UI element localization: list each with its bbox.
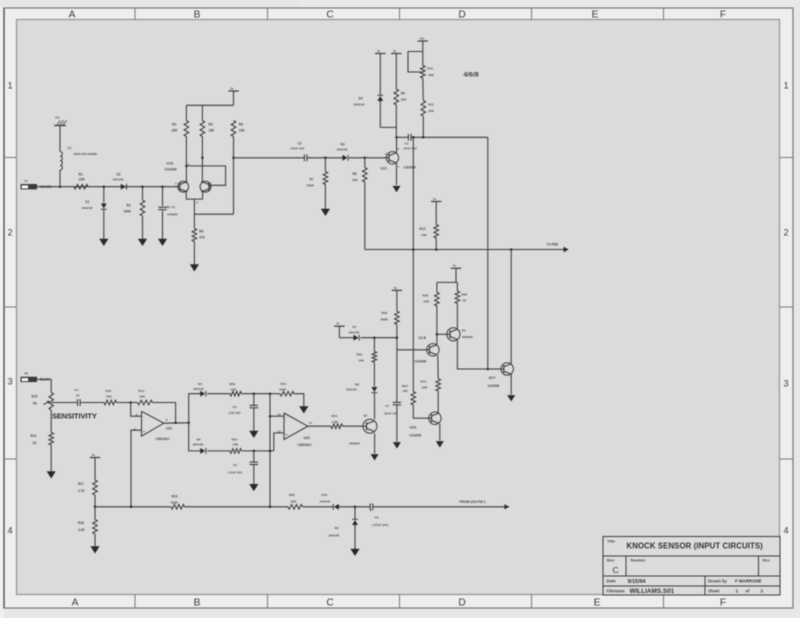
svg-text:33R: 33R <box>422 386 428 390</box>
svg-text:4: 4 <box>7 526 12 536</box>
diode D2 <box>121 184 126 190</box>
svg-text:1N4148: 1N4148 <box>193 443 204 447</box>
transistor Q1 2N3906 <box>447 328 460 341</box>
resistor R61 <box>411 392 416 406</box>
svg-text:1N4148: 1N4148 <box>193 387 204 391</box>
svg-text:12v: 12v <box>55 116 60 120</box>
node x270 bottom <box>269 506 272 509</box>
power bar R13 <box>431 201 441 203</box>
svg-text:C9: C9 <box>375 516 379 520</box>
svg-text:R23: R23 <box>232 437 238 441</box>
resistor R24 <box>331 424 343 429</box>
resistor R21 <box>280 391 294 396</box>
svg-text:C: C <box>326 598 333 609</box>
svg-text:50K: 50K <box>140 394 146 398</box>
svg-text:1.8K: 1.8K <box>332 420 339 424</box>
wire C9 to end <box>373 506 509 508</box>
power bar D7 <box>334 325 344 327</box>
wire branch down <box>189 423 201 451</box>
wire D10 to C9 <box>339 506 370 508</box>
wire minus jog <box>131 403 142 417</box>
wire R16 to node <box>117 402 138 404</box>
op-amp U2C LM324AJ <box>142 411 164 436</box>
svg-text:R17: R17 <box>78 482 84 486</box>
svg-text:SENSITIVITY: SENSITIVITY <box>52 412 97 421</box>
power bar D4 <box>375 53 385 55</box>
svg-text:10: 10 <box>133 428 136 432</box>
resistor R16 <box>104 400 117 405</box>
svg-text:KNOCK SENSOR (INPUT CIRCUITS): KNOCK SENSOR (INPUT CIRCUITS) <box>627 542 764 551</box>
svg-text:R19: R19 <box>172 495 178 499</box>
transistor Q2 2N3904 <box>363 419 377 433</box>
svg-text:R21: R21 <box>281 382 287 386</box>
transistor U1B CA3096 <box>427 344 439 356</box>
wire R56 down <box>396 324 398 349</box>
capacitor C1 <box>162 187 164 207</box>
svg-text:R11: R11 <box>428 103 434 107</box>
svg-text:1N4148: 1N4148 <box>329 534 340 538</box>
title block column lines <box>625 556 627 576</box>
resistor R65 <box>288 505 303 510</box>
svg-text:R1V: R1V <box>421 379 428 383</box>
ground R21 <box>299 406 308 413</box>
svg-text:U2C: U2C <box>166 427 173 431</box>
wire vertical x413 <box>412 137 414 249</box>
svg-text:D8: D8 <box>355 382 359 386</box>
resistor R10 <box>421 66 426 79</box>
svg-text:B: B <box>194 598 201 609</box>
right band dividers <box>780 157 794 159</box>
svg-text:BL C1: BL C1 <box>167 205 176 209</box>
svg-text:2N3906: 2N3906 <box>462 335 473 339</box>
node output U1A <box>201 157 204 160</box>
svg-text:Sheet: Sheet <box>708 588 720 593</box>
svg-text:14: 14 <box>309 421 312 425</box>
svg-text:4700PF: 4700PF <box>167 213 178 217</box>
svg-text:22R: 22R <box>424 300 430 304</box>
svg-text:180: 180 <box>403 389 408 393</box>
svg-text:R8: R8 <box>353 172 357 176</box>
svg-text:1K: 1K <box>33 441 38 445</box>
svg-text:D9: D9 <box>335 526 339 530</box>
wire plus input U2D <box>274 433 284 451</box>
wire U1B base <box>397 349 427 351</box>
wire to R10 <box>422 41 424 66</box>
svg-text:U1/3: U1/3 <box>410 425 417 429</box>
svg-text:R24: R24 <box>332 414 338 418</box>
resistor R7 <box>324 158 326 172</box>
capacitor C4 <box>77 399 79 406</box>
svg-text:2: 2 <box>783 228 788 238</box>
svg-text:.47UF 16V: .47UF 16V <box>403 147 417 151</box>
resistor R4 <box>200 121 205 137</box>
svg-text:of: of <box>746 588 751 593</box>
node C5 <box>253 392 256 395</box>
svg-text:R10: R10 <box>427 67 433 71</box>
wire R5 to output <box>233 137 235 215</box>
wire middle bus <box>365 249 568 251</box>
node L1 tap <box>59 185 62 188</box>
svg-text:560R: 560R <box>381 317 389 321</box>
power bar R56 <box>392 289 402 291</box>
diode D10 <box>334 504 339 510</box>
power bar R9 <box>391 53 401 55</box>
wire branch up <box>189 394 201 423</box>
svg-text:12v: 12v <box>420 36 425 40</box>
node plus drop <box>130 506 133 509</box>
wire U1B collector <box>436 343 438 346</box>
wire Q1 collector down <box>457 341 487 370</box>
svg-text:F: F <box>720 598 726 609</box>
svg-text:D10: D10 <box>322 493 328 497</box>
svg-text:5994-105-OHMS: 5994-105-OHMS <box>74 152 97 156</box>
connector P2 <box>21 377 38 382</box>
resistor R19 <box>171 505 185 510</box>
svg-text:560R: 560R <box>307 184 315 188</box>
wire emitter to R6 <box>194 213 233 215</box>
resistor R2 <box>142 187 144 200</box>
diode D6 <box>200 448 205 454</box>
svg-text:R56: R56 <box>382 311 388 315</box>
wire U2C output <box>164 422 189 424</box>
svg-text:U1A: U1A <box>167 162 174 166</box>
svg-text:F: F <box>720 9 726 20</box>
wire minus input U2D <box>270 415 284 417</box>
wire R20 to U2D <box>242 393 271 395</box>
capacitor C7 <box>396 350 398 402</box>
wire main input <box>37 186 178 188</box>
resistor R9 <box>395 54 397 90</box>
resistor R1 <box>74 184 88 189</box>
svg-text:5v: 5v <box>377 49 381 53</box>
capacitor C2 <box>303 154 305 161</box>
wire R61 to U1/3 base <box>412 405 414 418</box>
svg-text:C: C <box>613 565 619 575</box>
svg-text:U1 B: U1 B <box>419 336 427 340</box>
svg-text:3.3K: 3.3K <box>78 528 85 532</box>
ground C7 <box>393 442 401 448</box>
wire U2D output <box>308 425 331 427</box>
op-amp U2D LM324AJ <box>284 413 308 440</box>
svg-text:5v: 5v <box>336 322 340 326</box>
svg-text:13: 13 <box>278 412 281 416</box>
svg-text:+: + <box>286 433 288 437</box>
node bus x413 <box>412 248 415 251</box>
svg-text:R6: R6 <box>199 230 203 234</box>
wire mid vertical x270 <box>269 394 271 507</box>
svg-text:P1: P1 <box>25 179 29 183</box>
svg-text:R13: R13 <box>420 227 426 231</box>
svg-text:30K: 30K <box>401 98 407 102</box>
wire plus input drop <box>131 430 142 507</box>
svg-text:D4: D4 <box>359 97 363 101</box>
resistor R55 <box>373 338 375 352</box>
capacitor C6 <box>253 451 255 462</box>
capacitor C9 <box>369 503 371 510</box>
node R17/R18 <box>94 506 97 509</box>
diode D1 <box>103 187 105 203</box>
svg-text:Drawn by: Drawn by <box>708 579 728 584</box>
svg-text:Date: Date <box>607 579 617 584</box>
resistor R3 <box>184 121 189 137</box>
svg-text:R9: R9 <box>401 91 405 95</box>
wire R24 to Q2 <box>343 425 363 427</box>
node D9 <box>354 506 357 509</box>
wire R23 to vertical <box>242 450 274 452</box>
node vertical/D6 wire <box>269 450 272 453</box>
node U1A left collector <box>185 165 188 168</box>
power +12 rail <box>228 90 238 92</box>
svg-text:470: 470 <box>199 236 205 240</box>
wire top rail <box>185 105 187 120</box>
svg-text:22R: 22R <box>172 129 179 133</box>
ground C1 <box>158 239 167 246</box>
resistor R13 <box>435 202 437 225</box>
svg-text:U2D: U2D <box>304 436 311 440</box>
wire R19 to R65 <box>185 506 289 508</box>
svg-text:+: + <box>143 430 145 434</box>
svg-text:C2: C2 <box>298 141 302 145</box>
svg-text:D6: D6 <box>197 437 201 441</box>
svg-text:D: D <box>458 9 465 20</box>
resistor R18 <box>94 507 96 520</box>
svg-text:R18: R18 <box>78 521 84 525</box>
svg-text:CA3096: CA3096 <box>410 433 422 437</box>
title block outline <box>603 537 780 596</box>
wire R65 to D10 <box>303 506 334 508</box>
resistor R58 feedback <box>138 400 153 405</box>
svg-text:A: A <box>69 9 76 20</box>
svg-text:WILLIAMS.S01: WILLIAMS.S01 <box>630 588 675 595</box>
wire Q2 emitter <box>374 433 376 453</box>
ground Q2 <box>371 454 379 460</box>
svg-text:4: 4 <box>783 526 788 536</box>
svg-text:R4: R4 <box>209 122 213 126</box>
svg-text:5v: 5v <box>453 264 457 268</box>
wire C3 to corner <box>411 136 487 138</box>
ground R6 <box>190 264 199 271</box>
resistor R5 <box>231 121 236 137</box>
svg-text:10E: 10E <box>209 129 215 133</box>
svg-text:12: 12 <box>278 429 281 433</box>
svg-text:U1C: U1C <box>381 166 388 170</box>
node R21 <box>269 392 272 395</box>
svg-text:R14: R14 <box>31 434 37 438</box>
wire U1A collectors <box>185 137 187 182</box>
svg-text:R2: R2 <box>127 203 131 207</box>
resistor R26 <box>436 282 438 292</box>
svg-text:.1UF 50V: .1UF 50V <box>228 411 241 415</box>
svg-text:Number: Number <box>631 558 647 563</box>
arrow FROM U2A PIN 1 <box>504 504 509 509</box>
svg-text:LM324AJ: LM324AJ <box>156 437 170 441</box>
ground R18 <box>90 546 99 553</box>
ground D1 <box>99 239 108 246</box>
svg-text:CA3096: CA3096 <box>165 168 177 172</box>
bottom band dividers <box>134 595 136 609</box>
wire Q1 base <box>437 333 447 335</box>
svg-text:R16: R16 <box>106 389 112 393</box>
wire U1A feedback loop <box>186 166 225 185</box>
wire D6 to R23 <box>207 450 230 452</box>
node minus input <box>129 401 132 404</box>
svg-text:1N4148: 1N4148 <box>113 178 124 182</box>
node bus U5F <box>510 248 513 251</box>
node R7 <box>324 157 327 160</box>
wire to U1C base <box>349 157 386 159</box>
transistor U5F CA3096 <box>501 363 513 375</box>
resistor R27 <box>436 379 441 391</box>
diode D8 <box>373 362 375 386</box>
power bar R17 <box>90 457 100 459</box>
svg-text:3: 3 <box>7 377 12 387</box>
svg-text:E: E <box>592 9 599 20</box>
node bus R13 <box>435 248 438 251</box>
resistor R17 <box>94 458 96 481</box>
node diode branch <box>187 422 190 425</box>
svg-text:R14: R14 <box>139 389 145 393</box>
svg-text:1N4148: 1N4148 <box>354 102 365 106</box>
wire R26 to U1B <box>436 306 438 344</box>
svg-text:2: 2 <box>761 588 764 593</box>
svg-text:5K: 5K <box>33 402 38 406</box>
wire U1B emitter to R27 <box>437 355 439 378</box>
svg-text:Rev: Rev <box>763 558 771 563</box>
svg-text:5v: 5v <box>230 86 234 90</box>
svg-text:Q2: Q2 <box>364 413 368 417</box>
resistor R14 <box>49 433 54 446</box>
ground C6 <box>249 484 258 491</box>
svg-text:P2: P2 <box>25 372 29 376</box>
wire U5F emitter <box>510 374 512 394</box>
svg-text:.01: .01 <box>75 393 80 397</box>
node R8 <box>364 157 367 160</box>
svg-text:R55: R55 <box>357 353 363 357</box>
capacitor C3 <box>407 134 409 141</box>
ground U1/3 <box>436 441 444 447</box>
capacitor C5 <box>253 394 255 405</box>
svg-text:1: 1 <box>783 81 788 91</box>
wire D4 to R9 <box>380 126 396 128</box>
svg-text:D1: D1 <box>86 200 90 204</box>
svg-text:1N4148: 1N4148 <box>337 148 348 152</box>
node minus U2D <box>269 415 272 418</box>
diode D7 <box>338 326 340 338</box>
wire R8 down to bus <box>364 182 366 250</box>
wire power tee <box>455 268 457 282</box>
resistor R11 <box>422 78 425 101</box>
svg-text:R15: R15 <box>32 395 38 399</box>
svg-text:.47UF 16V: .47UF 16V <box>290 147 306 151</box>
svg-text:R66: R66 <box>461 292 467 296</box>
potentiometer R15 <box>49 393 54 411</box>
svg-text:D7: D7 <box>353 325 357 329</box>
title block row lines <box>603 555 780 557</box>
svg-text:5v: 5v <box>394 286 398 290</box>
wire R14 bottom <box>50 410 52 433</box>
wire D5 to R20 <box>207 393 230 395</box>
ground R7 <box>321 209 330 216</box>
svg-text:FROM U2A PIN 1: FROM U2A PIN 1 <box>460 500 486 504</box>
svg-text:100K: 100K <box>279 387 287 391</box>
svg-text:D1: D1 <box>462 328 466 332</box>
svg-text:Title: Title <box>607 539 616 544</box>
svg-text:9/15/94: 9/15/94 <box>628 579 646 585</box>
svg-text:C5: C5 <box>233 405 237 409</box>
svg-text:D3: D3 <box>341 142 345 146</box>
wire P2 to R15 <box>37 379 51 392</box>
node R55 top <box>373 336 376 339</box>
svg-text:C: C <box>326 9 333 20</box>
node feedback tap <box>174 422 177 425</box>
node D7 wire <box>396 336 399 339</box>
ground D9 <box>350 549 359 556</box>
wire bottom bus <box>95 506 171 508</box>
node C6 <box>253 450 256 453</box>
svg-text:A: A <box>72 598 79 609</box>
transistor U1A right <box>200 181 211 192</box>
svg-text:R5: R5 <box>239 122 243 126</box>
wire R27 to U1/3 <box>437 391 439 413</box>
svg-text:C6: C6 <box>233 463 237 467</box>
svg-text:5v: 5v <box>393 49 397 53</box>
outer border left edge emphasis <box>3 8 5 608</box>
svg-text:1: 1 <box>736 588 739 593</box>
svg-text:(.07UF 16V): (.07UF 16V) <box>372 523 388 527</box>
svg-text:C3: C3 <box>405 142 409 146</box>
svg-text:C4: C4 <box>74 388 78 392</box>
transistor U1A left <box>178 181 189 192</box>
ground C5 <box>249 431 258 438</box>
wire collector bus y137 <box>397 136 409 138</box>
svg-text:22R: 22R <box>291 500 297 504</box>
svg-text:R65: R65 <box>289 493 295 497</box>
diode D4 <box>379 54 381 96</box>
svg-text:10K: 10K <box>239 129 246 133</box>
resistor R23 <box>230 449 242 454</box>
ground U1C emitter <box>393 186 401 192</box>
svg-text:100K: 100K <box>124 209 132 213</box>
ground R2 <box>138 239 147 246</box>
svg-text:Size: Size <box>607 558 616 563</box>
ground R14 <box>47 471 56 478</box>
left band dividers <box>4 157 17 159</box>
resistor R6 <box>192 229 197 242</box>
svg-text:R1: R1 <box>79 173 83 177</box>
ground U5F <box>507 395 515 401</box>
node D1 <box>103 185 106 188</box>
svg-text:CA3096: CA3096 <box>488 384 500 388</box>
svg-text:10K: 10K <box>421 233 427 237</box>
wire feedback to output <box>153 403 176 423</box>
svg-text:30K: 30K <box>428 73 434 77</box>
svg-text:D5: D5 <box>198 382 202 386</box>
wire wiper out <box>51 402 77 404</box>
power +5 right <box>451 267 461 269</box>
svg-text:1N4148: 1N4148 <box>349 330 360 334</box>
svg-text:22K: 22K <box>106 394 112 398</box>
node bus vertical <box>412 136 415 139</box>
node R2 <box>141 185 144 188</box>
svg-text:F MARRONE: F MARRONE <box>735 579 762 584</box>
svg-text:U5 F: U5 F <box>489 376 496 380</box>
node Q1 base <box>436 333 439 336</box>
arrow TO R66 <box>564 247 569 252</box>
svg-text:3: 3 <box>783 379 788 389</box>
svg-text:1N4148: 1N4148 <box>82 206 93 210</box>
svg-text:B: B <box>194 9 201 20</box>
svg-text:CA3096: CA3096 <box>415 360 427 364</box>
